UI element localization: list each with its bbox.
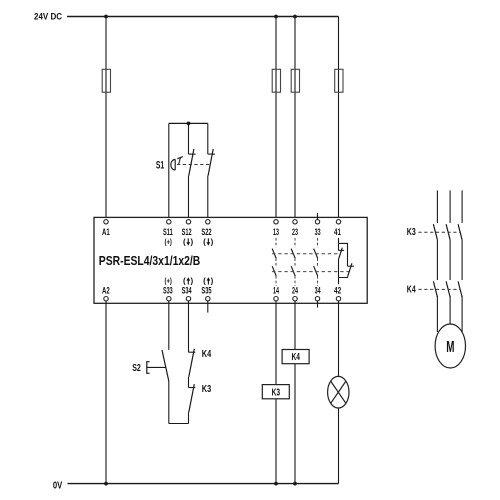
- terminal 41: [336, 220, 340, 224]
- wire: between K4 and K3: [188, 377, 190, 388]
- safety relay U1 PSR-ESL4/3x1/1x2/B body: [94, 217, 367, 303]
- svg-text:(: (: [203, 276, 206, 285]
- fuse F1: [102, 69, 110, 92]
- aux NC contact K3: [189, 387, 196, 389]
- wire: S34 down: [188, 301, 190, 352]
- svg-text:34: 34: [315, 286, 321, 296]
- contactor K3 main contacts: [433, 224, 462, 240]
- contactor K3 linkage dashed: [419, 231, 461, 233]
- relay internal linkage dashed line lower: [272, 271, 349, 273]
- terminal A1: [104, 220, 108, 224]
- emergency stop S1: [156, 122, 215, 220]
- terminal 13: [274, 220, 278, 224]
- svg-text:A2: A2: [102, 286, 110, 296]
- svg-text:A1: A1: [102, 227, 110, 237]
- svg-text:S11: S11: [163, 227, 173, 237]
- svg-text:(+): (+): [165, 276, 173, 285]
- S2 actuator: [147, 362, 150, 374]
- svg-text:S34: S34: [182, 286, 192, 296]
- wire: A2 to 0V rail: [105, 301, 107, 484]
- contactor K4 linkage dashed: [419, 288, 461, 290]
- S1 linkage dashed line: [177, 164, 211, 166]
- terminal 34: [315, 297, 319, 301]
- wire: terminal 23 supply branch: [294, 17, 296, 220]
- svg-text:K3: K3: [202, 383, 212, 395]
- svg-text:M: M: [446, 339, 454, 356]
- aux NC contact K4: [189, 351, 196, 353]
- node: rail junction A2: [104, 482, 108, 486]
- indicator lamp: [328, 376, 349, 408]
- relay internal NC contacts 41-42: [339, 238, 354, 284]
- svg-text:0V: 0V: [53, 481, 63, 492]
- S1 NC contact 2 (S22): [207, 123, 209, 154]
- svg-text:33: 33: [315, 227, 321, 237]
- wire: K3 to bottom link: [188, 412, 190, 423]
- svg-text:S12: S12: [182, 227, 192, 237]
- fuse F3: [291, 69, 299, 92]
- svg-text:K4: K4: [407, 284, 416, 295]
- wire: S11 to S1 top link: [168, 123, 170, 219]
- wire: reset loop bottom link: [169, 423, 189, 425]
- motor M: [435, 324, 465, 368]
- svg-text:S2: S2: [132, 362, 141, 374]
- terminal A2: [104, 297, 108, 301]
- reset circuit with S2 and K3/K4 aux contacts: [132, 301, 211, 424]
- relay internal linkage dashed line upper: [272, 253, 341, 255]
- terminal 42: [336, 297, 340, 301]
- svg-text:): ): [211, 237, 214, 246]
- wire: 0V rail: [68, 483, 339, 485]
- svg-text:PSR-ESL4/3x1/1x2/B: PSR-ESL4/3x1/1x2/B: [99, 253, 201, 268]
- reset button S2 blade: [162, 350, 169, 382]
- node: rail junction 13 branch: [274, 15, 278, 19]
- svg-text:23: 23: [292, 227, 298, 237]
- svg-text:24V DC: 24V DC: [34, 12, 62, 23]
- svg-text:): ): [191, 237, 194, 246]
- terminal 33: [315, 220, 319, 224]
- relay internal NO contact column 13-14: [272, 238, 276, 286]
- svg-text:S35: S35: [201, 286, 211, 296]
- S1 NC contact 1 (S12): [188, 123, 190, 154]
- svg-text:(: (: [183, 276, 186, 285]
- node: rail junction A1 branch: [104, 15, 108, 19]
- wire: 24V DC supply rail: [67, 16, 339, 18]
- terminal 14: [274, 297, 278, 301]
- svg-text:K3: K3: [272, 388, 281, 399]
- svg-text:K4: K4: [202, 348, 212, 360]
- wire: 24 down to 0V rail: [294, 301, 296, 484]
- svg-text:): ): [211, 276, 214, 285]
- svg-text:41: 41: [334, 227, 341, 237]
- wire: terminal 13 supply branch: [275, 17, 277, 220]
- svg-text:K4: K4: [292, 352, 301, 363]
- svg-text:42: 42: [334, 286, 341, 296]
- svg-text:S33: S33: [163, 286, 173, 296]
- svg-text:(: (: [203, 237, 206, 246]
- node: rail junction 14: [274, 482, 278, 486]
- svg-text:S1: S1: [156, 160, 164, 172]
- wire: phase L2: [449, 190, 451, 223]
- fuse F2: [272, 69, 280, 92]
- wire: S33 down: [168, 301, 170, 350]
- terminal S34: [186, 297, 190, 301]
- svg-text:(: (: [183, 237, 186, 246]
- wire: 14 down to 0V rail: [275, 301, 277, 484]
- relay internal NO contact column 33-34: [314, 238, 318, 286]
- node: rail junction 23 branch: [293, 15, 297, 19]
- terminal S22: [206, 220, 210, 224]
- wire: A1 supply branch: [105, 17, 107, 220]
- contactor K4 main contacts: [433, 281, 462, 297]
- svg-text:14: 14: [273, 286, 279, 296]
- wire: 42 down to lamp and 0V rail: [338, 301, 340, 377]
- terminal S35: [206, 297, 210, 301]
- wire: S2 to bottom link: [168, 382, 170, 424]
- terminal 23: [293, 220, 297, 224]
- wire: phase L1: [436, 190, 438, 223]
- wire: phase L3: [461, 190, 463, 223]
- motor branch three phase wires: [437, 190, 462, 332]
- coil K4: [282, 350, 309, 364]
- terminal S12: [186, 220, 190, 224]
- wire: stub below terminal 34: [317, 301, 319, 308]
- wire: S1 top horizontal link: [169, 122, 208, 124]
- S1 mushroom actuator: [171, 159, 175, 170]
- node: rail junction 24: [293, 482, 297, 486]
- svg-text:24: 24: [292, 286, 298, 296]
- svg-text:): ): [191, 276, 194, 285]
- S1 detent mark: [177, 157, 183, 159]
- coil K3: [262, 385, 289, 399]
- svg-text:S22: S22: [201, 227, 211, 237]
- svg-text:K3: K3: [407, 227, 416, 238]
- terminal S33: [167, 297, 171, 301]
- terminal 24: [293, 297, 297, 301]
- relay internal NO contact column 23-24: [291, 238, 295, 286]
- wire: terminal 41 supply branch: [338, 17, 340, 220]
- wire: stub above terminal 33: [317, 213, 319, 220]
- fuse F4: [335, 69, 343, 92]
- node: S1 link junction: [187, 122, 191, 126]
- svg-text:(+): (+): [165, 237, 173, 246]
- wire: stub below terminal S35: [207, 301, 209, 313]
- terminal S11: [167, 220, 171, 224]
- svg-text:13: 13: [273, 227, 279, 237]
